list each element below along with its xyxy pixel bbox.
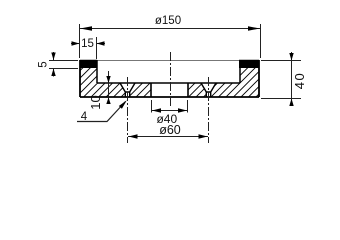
dim o60: dimension line + arrows [128,136,208,138]
part outline [80,60,259,97]
inner wall edge right [239,60,241,83]
right hole centerline [208,77,210,143]
right wall hatch [240,68,259,97]
svg-text:5: 5 [38,61,50,67]
dim 40: extension lines [261,60,301,62]
dim o40: extension lines [151,100,153,113]
bottom band hatch left of hole [97,83,151,97]
dim o150: extension lines [79,24,81,58]
svg-text:10: 10 [88,95,103,109]
rim top edges thick [80,60,259,62]
right rim black bar [239,60,259,68]
bottom band hatch right of hole [188,83,240,97]
dim 10: dimension line with arrows [108,71,110,103]
dim o150: dimension line [80,28,261,30]
svg-text:ø60: ø60 [159,123,181,137]
back rim edge thin line across recess [97,60,239,62]
countersunk hole left cavity [120,83,135,97]
label 4 leader [77,102,126,122]
dim o40: dimension line + arrows [152,110,188,112]
inner wall edge left [96,60,98,83]
central hole right edge [187,83,189,97]
dim 5: extension lines [49,60,78,62]
dim 40: dimension line + outside arrows [291,52,293,106]
svg-text:ø150: ø150 [155,15,181,27]
recess floor line [97,82,240,84]
central hole left edge [150,83,152,97]
left wall hatch [80,68,97,97]
main centerline [170,52,172,107]
dim o150: arrows [80,26,92,30]
left hole centerline [127,77,129,143]
countersunk hole right cavity [201,83,216,97]
svg-text:4: 4 [81,111,88,123]
dim 15: dimension line + outside arrows [71,43,80,45]
svg-text:15: 15 [81,38,94,50]
left rim black bar [80,60,97,68]
dim 5: arrows [53,52,55,60]
dim 15: extension line right [96,37,98,59]
svg-text:40: 40 [292,72,307,89]
